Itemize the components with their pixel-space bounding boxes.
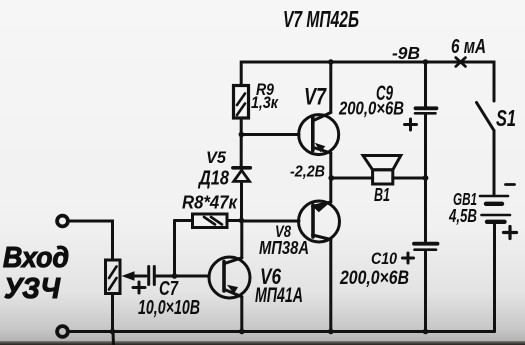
wire speaker to C9/C10 column bbox=[393, 177, 426, 180]
node C7 / R8 / V6 base junction bbox=[172, 273, 178, 279]
wire output node to speaker bbox=[331, 177, 372, 180]
svg-text:В1: В1 bbox=[374, 185, 390, 205]
wire V8 collector to bottom rail bbox=[329, 240, 332, 332]
wire C9 bottom to speaker node bbox=[424, 115, 427, 241]
svg-text:Д18: Д18 bbox=[197, 168, 229, 190]
svg-text:V7: V7 bbox=[304, 84, 327, 111]
label battery minus bbox=[506, 183, 515, 186]
battery GB1 bbox=[480, 196, 510, 222]
diode V5 D18 bbox=[233, 168, 250, 182]
svg-text:-9В: -9В bbox=[392, 43, 420, 63]
wire rail to C9 top bbox=[424, 62, 427, 107]
wire C10 bottom to rail bbox=[424, 251, 427, 332]
input terminal top bbox=[57, 216, 68, 227]
node C10 on rail bbox=[423, 329, 429, 335]
svg-text:V5: V5 bbox=[206, 149, 227, 167]
wire battery minus to plates / plates to bottom rail bbox=[493, 224, 496, 332]
label C9 plus bbox=[405, 119, 417, 130]
potentiometer volume bbox=[106, 260, 121, 294]
wire R9 bottom to diode bbox=[240, 118, 243, 166]
capacitor C10 200uF bbox=[414, 244, 438, 250]
svg-text:6 мА: 6 мА bbox=[451, 36, 486, 58]
svg-text:S1: S1 bbox=[496, 105, 516, 131]
label battery plus bbox=[504, 227, 517, 239]
capacitor C9 200uF bbox=[415, 108, 437, 113]
speaker B1 bbox=[363, 156, 401, 185]
node V6 emitter on rail bbox=[239, 329, 245, 335]
label C10 plus bbox=[403, 253, 414, 263]
input terminal bottom bbox=[57, 326, 68, 337]
wire V6 emitter to bottom rail bbox=[240, 297, 243, 332]
wire R8 to C7 output node bbox=[173, 221, 176, 277]
wire pot bottom to rail bbox=[111, 294, 114, 332]
wire input top terminal to pot bbox=[68, 221, 113, 260]
wire R8 right lead bbox=[227, 219, 242, 222]
node V7 collector to rail junction bbox=[328, 59, 334, 65]
wire V8 emitter to output node bbox=[329, 178, 332, 202]
svg-text:МП38А: МП38А bbox=[259, 238, 309, 258]
wire V8 base bbox=[242, 220, 300, 223]
capacitor C7 10uF bbox=[149, 267, 155, 285]
svg-text:200,0×6В: 200,0×6В bbox=[338, 99, 404, 119]
node pot bottom on rail bbox=[110, 329, 116, 335]
svg-text:R8*47к: R8*47к bbox=[182, 192, 238, 213]
node output junction V7/V8 emitters bbox=[328, 175, 334, 181]
transistor V7 MP42B bbox=[299, 113, 339, 155]
svg-text:4,5В: 4,5В bbox=[448, 206, 477, 226]
svg-text:-2,2В: -2,2В bbox=[290, 164, 325, 181]
wire diode to R8 junction bbox=[240, 182, 243, 221]
wire V6 collector up to junction bbox=[240, 221, 243, 258]
resistor R8 47k bbox=[193, 214, 228, 228]
ammeter break 6mA (x mark) bbox=[456, 58, 466, 67]
transistor V8 MP38A bbox=[299, 201, 340, 242]
node V8 collector on rail bbox=[328, 329, 334, 335]
switch S1 bbox=[477, 103, 495, 195]
node speaker to capacitor column junction bbox=[423, 175, 429, 181]
node V7 base junction bbox=[239, 132, 245, 138]
wire pot wiper to C7 with arrow bbox=[122, 271, 147, 281]
wire V6 base from C7 bbox=[156, 275, 209, 278]
resistor R9 1.3k bbox=[234, 86, 249, 119]
transistor V6 MP41A bbox=[209, 257, 250, 298]
svg-text:1,3к: 1,3к bbox=[251, 93, 279, 112]
node C9 to rail junction bbox=[423, 59, 429, 65]
svg-text:10,0×10В: 10,0×10В bbox=[138, 297, 200, 319]
wire V7 collector to rail bbox=[329, 62, 332, 113]
node R8 / V8 base junction bbox=[239, 218, 245, 224]
svg-text:УЗЧ: УЗЧ bbox=[4, 273, 61, 305]
svg-text:МП41А: МП41А bbox=[255, 284, 303, 307]
wire top rail -9V bbox=[241, 62, 494, 101]
wire R8 left lead bbox=[175, 219, 193, 222]
wire bottom rail bbox=[68, 330, 495, 333]
svg-text:V7 МП42Б: V7 МП42Б bbox=[283, 6, 359, 32]
svg-text:Вход: Вход bbox=[3, 242, 69, 274]
label C7 plus bbox=[133, 282, 145, 293]
wire V7 emitter to output node bbox=[329, 153, 332, 178]
wire V7 base bbox=[241, 133, 299, 136]
svg-text:200,0×6В: 200,0×6В bbox=[339, 268, 409, 289]
svg-text:C10: C10 bbox=[371, 249, 397, 268]
